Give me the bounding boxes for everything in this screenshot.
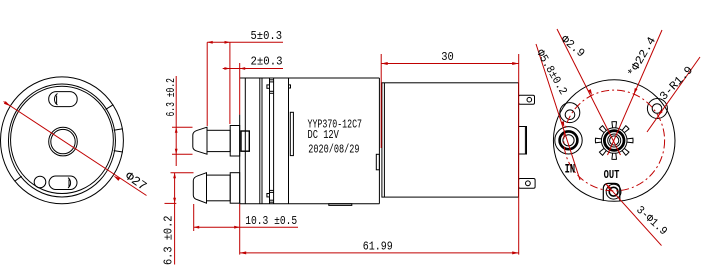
svg-text:5±0.3: 5±0.3 (251, 29, 283, 43)
tab between body and motor (376, 154, 379, 170)
6.3 top ext ticks (172, 126, 193, 128)
svg-text:30: 30 (441, 50, 454, 64)
motor terminal tab bottom (519, 179, 536, 189)
motor terminal tab top (519, 95, 535, 104)
ext line 10.3-left (193, 204, 195, 231)
left view bottom slot (49, 176, 77, 190)
nozzle 1 inner boss (241, 131, 249, 151)
clip hooks (267, 85, 270, 88)
svg-text:DC 12V: DC 12V (308, 128, 340, 142)
nozzle 2 neck (207, 175, 231, 201)
svg-text:OUT: OUT (604, 169, 620, 182)
left view top slot inner mark (54, 94, 57, 106)
pump head plate line 4 (288, 78, 290, 204)
ear top-left lobe (560, 103, 580, 123)
6.3 top dim line (175, 76, 177, 166)
left view red diameter line (4, 102, 147, 196)
ext line body face (239, 63, 241, 115)
red bolt circle (564, 90, 665, 191)
svg-text:10.3 ±0.5: 10.3 ±0.5 (245, 214, 297, 228)
nozzle 1 barb (193, 127, 207, 154)
dim line 30 (381, 63, 519, 65)
ext line motor rear (518, 54, 520, 255)
left view small circle (34, 176, 46, 188)
clip column (269, 78, 271, 204)
leader 3-Phi1.9 (606, 184, 662, 246)
nozzle 1 neck (207, 130, 230, 151)
red leader arrows (634, 88, 638, 94)
clip rungs (270, 79, 274, 81)
left view rim notch ticks (15, 105, 123, 182)
svg-text:61.99: 61.99 (363, 240, 393, 254)
nozzle 2 flange (230, 173, 240, 204)
OUT tab (603, 183, 620, 201)
leader Phi22.4 (608, 30, 663, 155)
nozzle 1 flange (230, 126, 240, 157)
left view bottom slot inner mark (68, 178, 71, 188)
pump head plate line 1 (244, 78, 246, 204)
body bottom step (329, 204, 352, 206)
pump head plate line 3 (261, 78, 263, 204)
left view top slot (49, 92, 77, 107)
OUT port rings (606, 184, 621, 199)
motor rear bushing (519, 127, 527, 155)
dim line 2+-0.3 (223, 68, 283, 70)
svg-text:2020/08/29: 2020/08/29 (308, 142, 359, 156)
ext line 5-left (206, 42, 208, 126)
ear top-right lobe (647, 99, 667, 119)
leader Phi2.9 (557, 29, 621, 155)
dim line 10.3+-0.5 (194, 226, 298, 228)
left view outer rim ellipse (1, 77, 124, 204)
inner bracket bar (290, 112, 293, 155)
ear top-right hole (652, 104, 662, 114)
left view third rim ellipse (11, 86, 114, 193)
pump head plate line 2 (259, 78, 261, 204)
svg-text:6.3 ±0.2: 6.3 ±0.2 (162, 216, 176, 266)
motor can crimp line (383, 83, 385, 197)
right view outer circle (553, 80, 675, 202)
head screw boss bump (289, 85, 291, 88)
center gear teeth (595, 122, 633, 160)
motor outline (382, 83, 519, 197)
left view center hub double circle (49, 127, 78, 156)
dim line 61.99 (240, 252, 519, 254)
left view second rim ellipse (8, 84, 115, 197)
leader Phi5.8 (536, 44, 580, 180)
svg-text:6.3 ±0.2: 6.3 ±0.2 (164, 78, 178, 117)
svg-text:2±0.3: 2±0.3 (251, 55, 283, 69)
6.3 bottom ext ticks (171, 172, 194, 174)
6.3 bottom dim line (174, 173, 176, 265)
nozzle 2 barb (193, 173, 206, 204)
center hub rings (601, 128, 627, 154)
svg-text:IN: IN (565, 163, 576, 177)
ext line 5-right/2-left (229, 42, 231, 124)
IN port rings (555, 127, 582, 154)
ear top-left hole (565, 110, 575, 120)
leader 3-R1.9 (647, 57, 700, 132)
dim line 5+-0.3 (207, 41, 283, 43)
ext line 30-left (380, 54, 382, 148)
pump body outline (240, 77, 380, 79)
